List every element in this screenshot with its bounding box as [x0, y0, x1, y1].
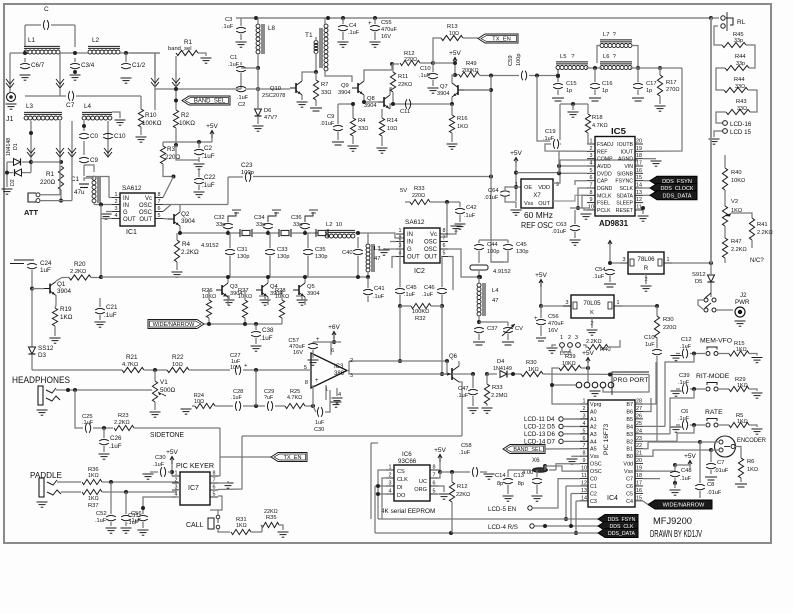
svg-text:5: 5 — [213, 492, 216, 498]
svg-text:AVDD: AVDD — [597, 164, 611, 170]
label R25 — [290, 389, 300, 395]
label 1K&#937; — [731, 208, 742, 214]
capacitor C57 — [308, 343, 318, 348]
ground — [251, 346, 262, 351]
label R28 — [275, 288, 286, 294]
wire — [441, 306, 443, 374]
svg-text:Vss: Vss — [524, 201, 534, 207]
wire — [724, 258, 726, 263]
wire — [557, 70, 559, 82]
resistor R19 — [52, 308, 57, 326]
capacitor C6/7 — [20, 63, 30, 68]
wire — [478, 270, 480, 277]
svg-text:ORG: ORG — [414, 487, 427, 493]
label C2 — [204, 145, 213, 152]
resistor R1 band_sel — [176, 50, 198, 55]
ground — [377, 148, 388, 153]
label C63 — [556, 222, 567, 228]
wire vertical to TX_EN — [219, 428, 221, 457]
junction — [489, 175, 493, 179]
label L3 — [374, 246, 380, 252]
wire — [267, 297, 269, 305]
svg-text:.1uF: .1uF — [543, 136, 555, 142]
wire — [330, 342, 332, 355]
diode D1 — [14, 159, 21, 166]
wire — [433, 62, 455, 64]
label L8 — [268, 25, 275, 32]
svg-text:C6: C6 — [681, 409, 688, 415]
diode D3 — [29, 347, 36, 354]
resistor R40 — [722, 168, 727, 190]
label J2 — [740, 292, 747, 299]
wire — [659, 68, 661, 75]
label C64 — [488, 188, 499, 194]
wire — [243, 405, 265, 407]
arrow — [56, 75, 64, 88]
svg-text:+5V: +5V — [449, 50, 461, 57]
capacitor C2a — [194, 149, 204, 154]
junction — [29, 131, 33, 135]
svg-text:7: 7 — [158, 199, 161, 205]
svg-text:2.2KΩ: 2.2KΩ — [731, 247, 747, 253]
wire — [451, 133, 453, 142]
ground — [752, 429, 763, 434]
svg-text:.1uF: .1uF — [202, 182, 215, 189]
junction — [23, 51, 27, 55]
IC 78L05 — [571, 295, 614, 318]
terminal LCD1 — [560, 343, 565, 348]
svg-text:18: 18 — [636, 153, 642, 159]
wire — [564, 418, 588, 420]
wire — [478, 334, 480, 340]
wire — [71, 121, 73, 144]
label 130p — [237, 254, 249, 260]
IC7 pins — [172, 475, 180, 477]
wire — [581, 367, 588, 369]
resistor R7 — [313, 80, 318, 100]
wire — [103, 428, 105, 438]
svg-text:LCD-5 EN: LCD-5 EN — [488, 506, 516, 513]
svg-text:.1uF: .1uF — [127, 520, 139, 526]
label LCD-11 D4 — [524, 416, 555, 423]
svg-text:J1: J1 — [6, 116, 14, 123]
svg-text:19: 19 — [636, 146, 642, 152]
wire — [307, 256, 309, 277]
svg-text:.1uF: .1uF — [464, 213, 476, 219]
wire — [31, 161, 61, 163]
wire — [583, 345, 588, 347]
label C6 — [681, 409, 688, 415]
wire — [716, 112, 726, 123]
svg-text:.1uF: .1uF — [680, 476, 692, 482]
junction — [99, 275, 103, 279]
wire — [643, 450, 711, 456]
label D3 — [38, 352, 47, 359]
wire — [375, 493, 386, 495]
label 2 — [590, 321, 593, 327]
terminal LCD3 — [576, 343, 581, 348]
label L3 — [26, 103, 34, 110]
wire — [486, 404, 488, 406]
wire — [557, 90, 559, 95]
svg-text:.01uF: .01uF — [484, 195, 499, 201]
label 2.2K&#937; — [181, 249, 199, 256]
label 10K&#937; — [731, 178, 745, 184]
svg-text:C21: C21 — [106, 304, 118, 311]
wire — [367, 233, 369, 244]
label 3904 — [57, 288, 72, 295]
wire — [180, 226, 207, 233]
wire — [570, 494, 572, 527]
capacitor C30b — [317, 407, 322, 417]
ground — [641, 286, 652, 291]
svg-text:C39: C39 — [679, 373, 690, 379]
label HEADPHONES — [12, 375, 70, 385]
svg-text:1: 1 — [617, 300, 620, 306]
label 470uF — [548, 321, 564, 327]
svg-text:10KΩ: 10KΩ — [179, 120, 195, 127]
svg-text:4: 4 — [338, 392, 341, 398]
ground — [468, 408, 479, 413]
wire — [291, 232, 318, 234]
svg-text:R12: R12 — [457, 484, 468, 490]
capacitor C10c — [652, 349, 662, 354]
wire — [559, 165, 587, 167]
wire — [255, 370, 257, 406]
ground — [752, 393, 763, 398]
svg-text:Q6: Q6 — [449, 354, 458, 360]
wire — [125, 53, 127, 62]
wire — [189, 369, 230, 371]
svg-text:OUT: OUT — [123, 217, 136, 223]
svg-text:R21: R21 — [126, 354, 138, 361]
transistor Q9 — [352, 81, 364, 95]
wire — [9, 88, 11, 92]
svg-text:OSC: OSC — [139, 210, 153, 216]
wire — [331, 341, 341, 343]
svg-text:R18: R18 — [592, 115, 603, 121]
junction — [586, 366, 590, 370]
resistor R39 — [559, 365, 581, 370]
label C2 — [238, 102, 245, 108]
svg-text:RESET: RESET — [616, 208, 634, 214]
resistor R1 — [58, 166, 63, 190]
label R4 — [182, 241, 191, 248]
svg-text:MCLK: MCLK — [597, 193, 612, 199]
label 60 MHz — [524, 211, 553, 220]
junction — [341, 16, 345, 20]
capacitor C25 — [85, 423, 90, 433]
wire — [574, 210, 576, 224]
label .1uF — [222, 24, 234, 30]
svg-text:C: C — [44, 6, 49, 13]
svg-text:200KΩ: 200KΩ — [462, 68, 479, 74]
svg-text:C1: C1 — [230, 55, 237, 61]
arrow — [27, 144, 35, 157]
wire — [584, 208, 587, 210]
wire — [325, 231, 328, 233]
label 220&#937; — [404, 57, 417, 63]
svg-text:C13: C13 — [513, 473, 524, 479]
svg-text:.01uF: .01uF — [707, 490, 722, 496]
junction — [66, 388, 70, 392]
inductor L1 — [24, 46, 60, 54]
tag DDS_CLOCK — [650, 184, 697, 193]
resistor R13 — [441, 35, 463, 40]
label 270&#937; — [666, 87, 680, 93]
label C42 — [466, 205, 477, 211]
jack HEADPHONES — [38, 386, 43, 405]
svg-text:C54: C54 — [595, 267, 606, 273]
svg-text:7: 7 — [583, 443, 586, 449]
label .1uF — [153, 462, 165, 468]
label C7 — [717, 460, 724, 466]
svg-text:Q10: Q10 — [270, 86, 281, 92]
wire — [508, 469, 531, 471]
crystal X3 — [316, 229, 328, 237]
junction — [30, 287, 34, 291]
wire — [749, 389, 757, 391]
label 1p — [646, 88, 652, 94]
capacitor C12 — [682, 349, 687, 359]
junction — [564, 517, 568, 521]
ground — [310, 108, 322, 111]
wire — [540, 306, 542, 318]
ground — [201, 58, 212, 63]
svg-text:+5V: +5V — [166, 449, 178, 456]
wire — [674, 478, 676, 483]
wire — [244, 290, 246, 300]
svg-text:4K serial EEPROM: 4K serial EEPROM — [381, 508, 435, 515]
capacitor C45 — [395, 288, 405, 293]
svg-text:PRG PORT: PRG PORT — [613, 377, 648, 384]
resistor R31 — [231, 529, 251, 534]
IC5 pins — [587, 143, 595, 145]
svg-text:ENCODER: ENCODER — [737, 437, 766, 444]
label 220&#937; — [663, 325, 677, 331]
svg-text:1p: 1p — [566, 88, 572, 94]
label R3 — [167, 146, 176, 153]
label 10&#937; — [449, 31, 459, 37]
wire — [241, 67, 258, 69]
svg-text:Q1: Q1 — [57, 281, 66, 288]
label C6/7 — [31, 62, 45, 69]
svg-text:C2: C2 — [590, 491, 597, 497]
capacitor C15 — [553, 83, 563, 88]
label 4.7K&#937; — [122, 362, 139, 368]
label Q2 — [181, 211, 190, 218]
svg-text:AD9831: AD9831 — [599, 218, 628, 228]
junction — [655, 304, 659, 308]
wire — [710, 470, 712, 474]
ground — [150, 412, 161, 417]
wire — [637, 90, 639, 95]
wire — [363, 95, 365, 104]
svg-text:C17: C17 — [646, 81, 657, 87]
resistor R44b — [724, 87, 748, 92]
svg-text:A3: A3 — [590, 432, 597, 438]
label .1uF — [457, 393, 469, 399]
svg-text:21: 21 — [636, 451, 642, 457]
wire — [93, 203, 95, 205]
svg-text:47: 47 — [492, 298, 498, 304]
label 22K&#937; — [398, 82, 412, 88]
wire — [689, 465, 691, 468]
junction — [170, 470, 174, 474]
svg-text:WIDE/NARROW: WIDE/NARROW — [153, 322, 195, 328]
wire — [643, 158, 656, 160]
junction — [174, 99, 178, 103]
svg-text:IN: IN — [407, 240, 413, 246]
wire — [269, 256, 271, 277]
ground — [428, 88, 439, 93]
svg-text:L5 ?: L5 ? — [560, 54, 575, 60]
wire — [312, 385, 314, 406]
capacitor C9 — [79, 157, 89, 162]
junction — [254, 322, 258, 326]
svg-text:SIDETONE: SIDETONE — [150, 430, 184, 439]
wire — [448, 257, 453, 291]
svg-text:IC6: IC6 — [402, 451, 412, 458]
svg-text:C45: C45 — [516, 242, 527, 248]
wire — [643, 501, 648, 505]
wire — [315, 72, 317, 80]
svg-text:T1: T1 — [305, 32, 313, 39]
pushbutton RATE — [706, 419, 718, 428]
svg-text:IC2: IC2 — [414, 268, 425, 275]
wire — [163, 164, 174, 177]
wire — [536, 485, 538, 494]
svg-text:J2: J2 — [740, 292, 747, 299]
wire — [40, 200, 72, 202]
label 1p — [566, 88, 572, 94]
wire — [541, 305, 571, 307]
svg-text:20: 20 — [636, 139, 642, 145]
label R20 — [74, 261, 86, 268]
svg-text:OUT: OUT — [139, 217, 152, 223]
svg-text:C4: C4 — [626, 499, 633, 505]
resistor R41 — [749, 218, 754, 240]
label C39 — [679, 373, 690, 379]
svg-text:R7: R7 — [321, 82, 328, 88]
ground — [503, 496, 514, 501]
label LCD-16 — [730, 121, 752, 128]
label 10K&#937; — [179, 120, 195, 127]
wire — [455, 74, 459, 77]
wire — [313, 341, 334, 343]
capacitor C42 — [455, 208, 465, 213]
svg-text:47V?: 47V? — [264, 115, 277, 121]
junction — [574, 531, 578, 535]
label C34 — [254, 215, 265, 221]
label LCD-13 D6 — [524, 431, 556, 438]
transistor Q7 — [452, 83, 464, 97]
svg-text:C31: C31 — [237, 247, 248, 253]
svg-text:R40: R40 — [600, 347, 611, 353]
jack ATT — [28, 193, 36, 202]
svg-text:C34: C34 — [254, 215, 265, 221]
label 1N4149 — [493, 366, 512, 372]
svg-text:Q9: Q9 — [341, 83, 349, 89]
svg-text:4.7KΩ: 4.7KΩ — [287, 395, 302, 401]
ground — [502, 342, 514, 345]
wire — [304, 230, 306, 233]
label 3904 — [181, 218, 196, 225]
ground — [278, 532, 289, 537]
svg-text:1KΩ: 1KΩ — [457, 124, 468, 130]
svg-text:C40: C40 — [342, 250, 353, 256]
wire — [337, 132, 339, 140]
svg-text:5: 5 — [158, 213, 161, 219]
label .1uF — [464, 213, 476, 219]
wire — [30, 157, 32, 173]
wire — [643, 398, 651, 412]
label .1uF — [237, 95, 249, 101]
label 3904 — [364, 103, 376, 109]
wire — [676, 424, 680, 426]
wire — [325, 390, 330, 412]
wire — [227, 230, 229, 233]
svg-text:6: 6 — [443, 243, 446, 249]
power +5V — [684, 453, 696, 468]
svg-text:RIT-MODE: RIT-MODE — [696, 373, 730, 380]
label C15 — [566, 81, 577, 87]
wire sidetone net — [242, 435, 462, 437]
label IC7 — [188, 485, 199, 492]
label PIC 16F73 — [603, 424, 610, 455]
label T1 — [305, 32, 313, 39]
diode D5 — [708, 275, 715, 282]
svg-text:DO: DO — [397, 493, 406, 499]
svg-text:470uF: 470uF — [548, 321, 564, 327]
wire — [83, 141, 85, 155]
svg-text:220Ω: 220Ω — [40, 179, 56, 186]
terminal LCD-13 D6 — [559, 432, 563, 436]
crystal X6 — [533, 468, 548, 473]
svg-text:2.2KΩ: 2.2KΩ — [757, 230, 773, 236]
wire — [91, 277, 101, 279]
svg-text:C10: C10 — [114, 133, 126, 140]
svg-text:3: 3 — [623, 257, 626, 263]
junction — [102, 426, 106, 430]
wire — [724, 190, 726, 206]
svg-text:band_sel: band_sel — [168, 46, 192, 52]
transistor Q8 — [378, 95, 390, 109]
wire — [572, 104, 574, 110]
svg-text:10V: 10V — [230, 365, 240, 371]
label R49 — [466, 61, 477, 67]
svg-text:C46: C46 — [424, 285, 435, 291]
wire — [452, 75, 455, 83]
svg-text:C7: C7 — [717, 460, 724, 466]
label C26 — [110, 435, 122, 442]
label C14 — [495, 473, 506, 479]
label C24 — [40, 260, 52, 267]
wire — [710, 450, 712, 462]
wire — [227, 177, 229, 205]
wire — [176, 262, 178, 270]
svg-text:C2: C2 — [238, 102, 245, 108]
resistor R23 — [114, 425, 134, 430]
label R5 — [736, 413, 743, 419]
wire main IF line — [101, 276, 368, 278]
label C32 — [214, 215, 225, 221]
wire — [552, 384, 576, 386]
label 130p — [277, 254, 289, 260]
svg-text:17: 17 — [636, 160, 642, 166]
svg-text:FSEL: FSEL — [597, 201, 610, 207]
wire — [570, 207, 590, 209]
